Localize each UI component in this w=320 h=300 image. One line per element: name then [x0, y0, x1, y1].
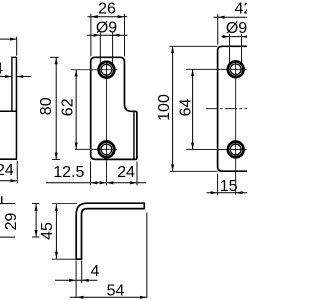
dim 29 arrow bottom	[35, 230, 38, 237]
middle plate flange inner edge	[133, 112, 135, 159]
right plate bottom hole outer ring	[228, 142, 244, 158]
side view A plate top edge	[11, 56, 16, 58]
dim 42 arrow left	[218, 16, 225, 19]
dim 45 line	[55, 204, 57, 258]
svg-text:4: 4	[91, 263, 100, 280]
svg-text:24: 24	[0, 162, 14, 179]
dim 24b arrow left	[107, 181, 114, 184]
dim 64 arrow top	[191, 70, 194, 77]
dim 15 arrow left	[211, 191, 218, 194]
dim 4b ext left	[75, 261, 77, 298]
dim 12.5 ext left	[90, 162, 92, 186]
dim 100 ext top	[170, 45, 218, 47]
dim dia9 arrow right	[113, 34, 120, 37]
right plate symmetry centerline	[206, 108, 248, 110]
dim ext line depth	[16, 37, 18, 56]
dim 64 arrow bottom	[191, 143, 194, 150]
dim 4b arrow right	[82, 279, 89, 282]
dim 42 ext left	[217, 14, 219, 45]
dim 42 line	[214, 16, 249, 18]
right plate outline	[218, 46, 248, 171]
right bottom hole crosshair / dim 64 ext bottom	[186, 148, 247, 150]
dim 26 arrow right	[118, 15, 125, 18]
neighbour bar end cap	[1, 196, 3, 204]
L-profile outer face	[76, 203, 144, 258]
middle plate bottom hole bore	[101, 144, 112, 155]
neighbour ext line top	[0, 203, 15, 205]
dim 24 line	[0, 180, 17, 182]
dim 24b arrow right	[130, 181, 137, 184]
dim 24 arrow	[10, 179, 17, 182]
dim 62 arrow bottom	[75, 143, 78, 150]
dim 45 arrow bottom	[55, 252, 58, 259]
dim 24b ext right	[136, 162, 138, 186]
dim dia9b arrow left	[223, 35, 230, 38]
dim 45 ext bottom	[52, 258, 75, 260]
dim 4 line right seg	[16, 76, 31, 78]
right holes vertical centerline	[235, 61, 237, 195]
dim 15 ext left	[217, 174, 219, 196]
dim 62 line	[75, 70, 77, 150]
svg-text:42: 42	[235, 0, 248, 17]
dim 15 line	[207, 192, 249, 194]
dim arrow depth	[10, 38, 17, 41]
dim 4b arrow left	[69, 279, 76, 282]
dim 4b ext right	[81, 261, 83, 284]
dim 4b line	[55, 279, 98, 281]
dim dia9b line	[222, 36, 249, 38]
side view A bottom edge	[0, 158, 17, 160]
middle plate top hole bore	[101, 64, 112, 75]
dim dia9 ext right	[112, 32, 114, 63]
dim 45 ext top	[52, 202, 77, 204]
dim 26 arrow left	[91, 15, 98, 18]
middle bottom hole crosshair	[75, 148, 117, 150]
dim dia9 line	[87, 34, 128, 36]
dim 29 line	[35, 204, 37, 237]
dim 64 line	[192, 69, 194, 149]
dim dia9b ext right	[241, 34, 243, 64]
dim 54 arrow right	[140, 296, 147, 299]
dim 4 line left seg	[0, 76, 12, 78]
right plate top hole outer ring	[228, 61, 244, 77]
side view A plate edge (front face line)	[11, 57, 13, 111]
right plate top hole bore	[230, 64, 241, 75]
dim 26 ext left	[90, 14, 92, 56]
dim 54 arrow left	[77, 296, 84, 299]
right top hole crosshair / dim 64 ext top	[186, 68, 247, 70]
dim 4 arrow left	[5, 75, 12, 78]
svg-text:Ø9: Ø9	[96, 20, 117, 37]
dim 24 ext line	[16, 161, 18, 183]
side view A plate edge (back face line)	[15, 57, 17, 159]
middle plate bottom hole outer ring	[99, 142, 115, 158]
dim dia9b arrow right	[242, 35, 249, 38]
L-profile end cap right	[143, 202, 145, 209]
dim 100 ext bottom	[170, 170, 218, 172]
L-profile inner face	[82, 209, 145, 259]
dim 12.5 arrow right	[100, 181, 107, 184]
svg-text:12.5: 12.5	[53, 164, 84, 181]
dim 100 line	[172, 46, 174, 171]
dim 29 arrow top	[35, 204, 38, 211]
dim 15 arrow right	[236, 191, 243, 194]
dim 80 ext bottom	[52, 158, 60, 160]
neighbour ext line bottom	[0, 236, 15, 238]
dim 80 arrow bottom	[55, 153, 58, 160]
svg-text:24: 24	[117, 164, 135, 181]
dim 4 arrow right	[17, 75, 24, 78]
svg-text:45: 45	[39, 222, 56, 240]
middle plate top hole outer ring	[99, 62, 115, 78]
dim line depth (cut off)	[0, 38, 17, 40]
dim 54 ext right	[146, 213, 148, 298]
svg-text:62: 62	[60, 98, 77, 116]
right plate bottom hole bore	[230, 144, 241, 155]
dim dia9 arrow left	[94, 34, 101, 37]
dim 29 tick bottom	[32, 236, 40, 238]
dim 62 arrow top	[75, 70, 78, 77]
dim 29 tick top	[32, 203, 40, 205]
dim 26 ext right	[124, 14, 126, 56]
middle top hole crosshair	[71, 69, 117, 71]
dim 80 line	[55, 57, 57, 159]
dim 80 ext top	[50, 56, 59, 58]
dim 12.5/24 line	[46, 182, 146, 184]
dim dia9 ext left	[99, 32, 101, 63]
dim dia9b ext left	[229, 34, 231, 64]
dim 45 arrow top	[55, 204, 58, 211]
svg-text:80: 80	[38, 97, 55, 115]
svg-text:100: 100	[156, 94, 173, 121]
middle holes vertical centerline	[105, 64, 107, 186]
svg-text:29: 29	[3, 213, 20, 231]
svg-text:64: 64	[177, 99, 194, 117]
dim 12.5 arrow left	[91, 181, 98, 184]
dim 26 line	[88, 16, 128, 18]
L-profile end cap bottom	[75, 258, 82, 260]
dim 100 arrow top	[171, 47, 174, 54]
svg-text:4: 4	[0, 61, 3, 78]
side view A wing top edge	[0, 110, 16, 112]
dim 100 arrow bottom	[171, 164, 174, 171]
dim 80 arrow top	[55, 58, 58, 65]
svg-text:26: 26	[98, 1, 116, 18]
dim 54 line	[70, 296, 147, 298]
middle plate outline	[91, 57, 137, 159]
svg-text:Ø9: Ø9	[226, 20, 247, 37]
